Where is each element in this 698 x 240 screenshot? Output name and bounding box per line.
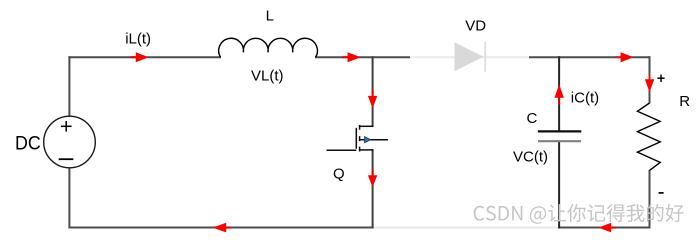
- wire: inductor to junction: [315, 56, 410, 58]
- wire: left branch upper (DC+ to top wire): [68, 56, 70, 116]
- wire: drain lead down from junction: [372, 56, 374, 127]
- current arrow iL on top-left wire: [130, 52, 148, 62]
- svg-text:VD: VD: [465, 17, 486, 34]
- current arrow up capacitor branch iC: [555, 84, 564, 104]
- current arrow down drain lead: [368, 89, 377, 108]
- inductor L: [219, 38, 318, 57]
- diode VD (inactive, light gray): [455, 42, 487, 72]
- current arrow down source lead: [368, 170, 377, 188]
- current arrow left on bottom wire (right): [598, 223, 616, 233]
- wire: capacitor top lead: [558, 56, 560, 131]
- svg-text:VC(t): VC(t): [513, 148, 548, 165]
- wire: top left (source to inductor): [68, 56, 221, 58]
- svg-text:iL(t): iL(t): [125, 30, 151, 47]
- transistor Q (N-MOSFET): [327, 125, 389, 152]
- capacitor C bottom plate: [538, 140, 581, 142]
- current arrow after inductor: [342, 52, 361, 62]
- current arrow on top-right wire: [615, 52, 633, 62]
- wire: top light (diode branch, inactive): [409, 56, 530, 58]
- svg-text:C: C: [527, 110, 538, 127]
- svg-text:DC: DC: [15, 133, 41, 155]
- wire: left branch lower (DC- to bottom wire): [68, 168, 70, 229]
- svg-text:L: L: [266, 8, 274, 25]
- watermark CSDN: [474, 204, 684, 224]
- plus sign inside source: [61, 121, 72, 132]
- wire: bottom light (inactive return segment): [372, 226, 559, 228]
- wire: bottom right (load return): [558, 227, 650, 229]
- current arrow down resistor branch: [645, 74, 654, 92]
- wire: source lead down to bottom wire: [372, 149, 374, 228]
- wire: top right (diode to load corner): [529, 56, 651, 58]
- resistor R zigzag: [637, 103, 660, 170]
- svg-text:iC(t): iC(t): [571, 90, 599, 107]
- wire: capacitor bottom lead: [558, 141, 560, 228]
- plus sign at load top: [657, 75, 664, 82]
- minus sign inside source: [59, 158, 74, 160]
- svg-text:Q: Q: [333, 166, 345, 183]
- wire: resistor bottom lead: [649, 170, 651, 229]
- DC voltage source circle: [44, 116, 96, 168]
- body arrow of Q (blue): [365, 137, 371, 143]
- svg-text:VL(t): VL(t): [251, 68, 284, 85]
- wire: bottom left (return to source): [68, 227, 373, 229]
- wire: resistor top lead: [649, 56, 651, 103]
- current arrow left on bottom wire (mid): [213, 223, 231, 233]
- svg-text:R: R: [679, 93, 690, 110]
- capacitor C top plate: [538, 130, 581, 132]
- minus sign at load bottom: [659, 192, 664, 194]
